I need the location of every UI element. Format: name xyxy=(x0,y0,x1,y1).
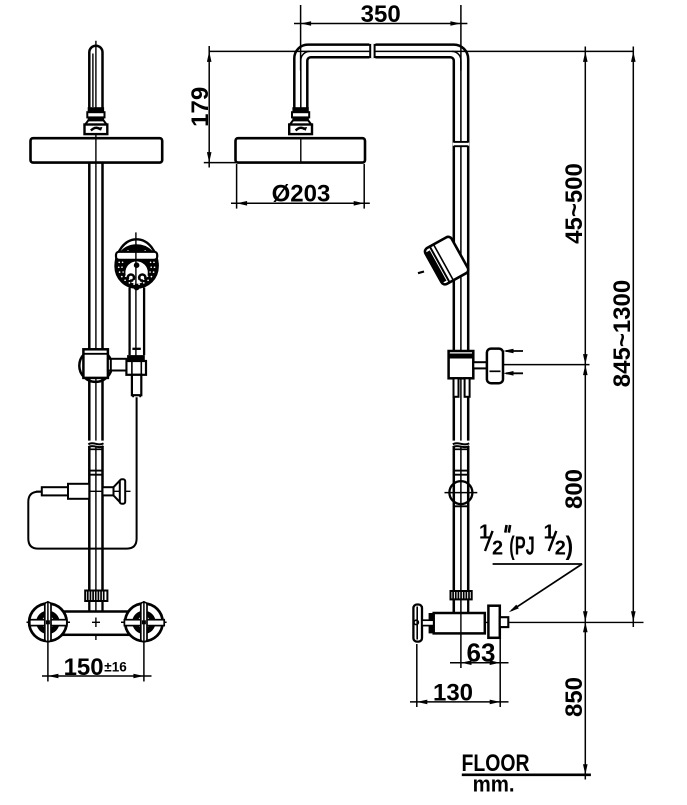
svg-text:2: 2 xyxy=(492,537,503,559)
svg-text:2: 2 xyxy=(555,537,566,559)
svg-text:130: 130 xyxy=(433,680,473,707)
svg-text:): ) xyxy=(566,530,574,560)
svg-text:845~1300: 845~1300 xyxy=(609,280,636,387)
svg-text:850: 850 xyxy=(561,677,588,717)
svg-text:800: 800 xyxy=(561,469,588,509)
svg-text:150: 150 xyxy=(64,654,104,681)
svg-text:350: 350 xyxy=(361,1,401,28)
svg-text:45~500: 45~500 xyxy=(561,163,588,244)
svg-text:mm.: mm. xyxy=(473,771,515,796)
svg-text:±16: ±16 xyxy=(104,660,127,675)
svg-text:Ø203: Ø203 xyxy=(272,181,331,208)
svg-text:(PJ: (PJ xyxy=(509,530,535,560)
svg-text:179: 179 xyxy=(187,87,214,127)
svg-text:63: 63 xyxy=(467,638,496,668)
